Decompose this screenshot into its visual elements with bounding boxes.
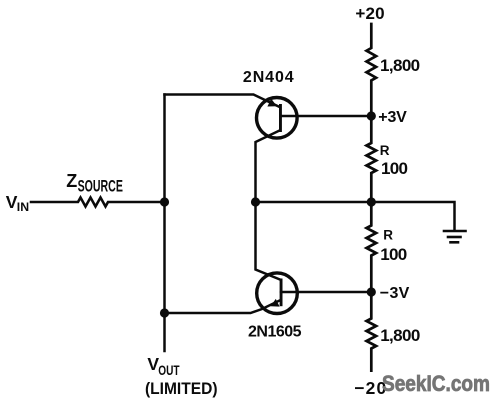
svg-text:(LIMITED): (LIMITED)	[145, 380, 218, 398]
svg-text:Z: Z	[66, 171, 77, 191]
svg-text:SOURCE: SOURCE	[78, 177, 123, 195]
svg-text:R: R	[383, 228, 393, 243]
svg-text:R: R	[380, 143, 390, 158]
svg-text:−3V: −3V	[380, 285, 410, 302]
svg-text:1,800: 1,800	[380, 326, 420, 345]
svg-text:+20: +20	[355, 4, 384, 23]
svg-text:1,800: 1,800	[380, 56, 420, 75]
svg-text:2N404: 2N404	[243, 69, 295, 86]
svg-text:+3V: +3V	[378, 109, 407, 126]
svg-text:100: 100	[381, 159, 408, 178]
svg-text:OUT: OUT	[158, 363, 180, 378]
svg-text:100: 100	[380, 245, 407, 264]
svg-text:SeekIC.com: SeekIC.com	[382, 371, 490, 396]
svg-text:IN: IN	[17, 200, 29, 214]
svg-text:2N1605: 2N1605	[248, 323, 302, 340]
